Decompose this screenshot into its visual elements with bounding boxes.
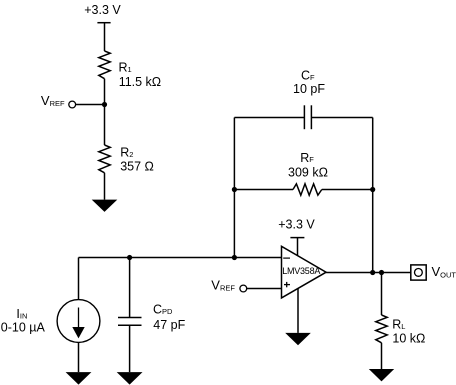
op-amp U1 LMV358A bbox=[282, 246, 327, 298]
ground (RL) bbox=[369, 369, 394, 381]
svg-text:LMV358A: LMV358A bbox=[282, 266, 320, 276]
wire RL to ground bbox=[381, 343, 383, 369]
ground (op-amp) bbox=[285, 333, 311, 345]
node output feedback bbox=[370, 270, 375, 275]
node RF right bbox=[370, 187, 375, 192]
svg-text:357 Ω: 357 Ω bbox=[120, 159, 154, 173]
terminal VREF (left) bbox=[41, 93, 105, 108]
svg-text:10 pF: 10 pF bbox=[293, 82, 325, 96]
current source IIN 0-10 uA bbox=[1, 258, 100, 373]
node VREF junction bbox=[102, 102, 107, 107]
wire R1 to node bbox=[104, 79, 106, 105]
node RF left bbox=[232, 187, 237, 192]
wire feedback left vertical bbox=[233, 118, 235, 258]
capacitor CF 10 pF bbox=[234, 69, 372, 130]
svg-text:+3.3 V: +3.3 V bbox=[84, 3, 121, 17]
supply +3.3 V (op-amp) bbox=[278, 217, 315, 256]
supply +3.3 V (left divider) bbox=[84, 3, 121, 51]
svg-text:10 kΩ: 10 kΩ bbox=[392, 331, 425, 345]
node output RL bbox=[379, 270, 384, 275]
wire output bbox=[326, 272, 410, 274]
terminal VREF (op-amp +) bbox=[211, 277, 281, 292]
node feedback junction bbox=[232, 255, 237, 260]
resistor R2 357 Ohm bbox=[99, 145, 154, 173]
ground (below R2) bbox=[92, 200, 118, 212]
node CPD junction bbox=[127, 255, 132, 260]
svg-text:47 pF: 47 pF bbox=[153, 318, 185, 332]
resistor R1 11.5 kOhm bbox=[99, 51, 161, 89]
wire R2 to ground bbox=[104, 173, 106, 200]
svg-text:309 kΩ: 309 kΩ bbox=[288, 165, 328, 179]
ground (IIN) bbox=[66, 372, 92, 385]
svg-text:+3.3 V: +3.3 V bbox=[278, 217, 315, 231]
resistor RF 309 kOhm bbox=[234, 151, 372, 195]
svg-text:0-10 µA: 0-10 µA bbox=[1, 321, 46, 335]
terminal VOUT bbox=[411, 264, 456, 280]
capacitor CPD 47 pF bbox=[118, 258, 186, 373]
svg-text:11.5 kΩ: 11.5 kΩ bbox=[119, 75, 161, 89]
wire op-amp ground bbox=[297, 288, 299, 333]
wire inverting input bbox=[79, 257, 282, 259]
wire RL branch bbox=[381, 273, 383, 316]
wire node to R2 bbox=[104, 105, 106, 146]
ground (CPD) bbox=[117, 372, 143, 385]
resistor RL 10 kOhm bbox=[376, 315, 426, 345]
wire feedback right vertical bbox=[372, 118, 374, 273]
